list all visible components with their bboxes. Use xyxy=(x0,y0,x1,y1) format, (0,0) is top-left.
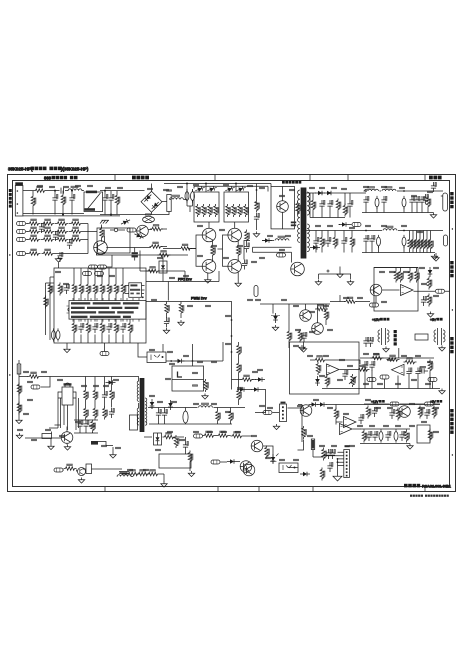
capacitor xyxy=(363,196,369,206)
capacitor C808 xyxy=(132,248,138,261)
resistor xyxy=(237,362,242,375)
ground xyxy=(439,389,445,395)
resistor xyxy=(28,227,41,233)
value label xyxy=(46,429,51,430)
capacitor xyxy=(53,231,59,241)
resistor xyxy=(325,375,330,388)
fuse F803 xyxy=(28,372,41,378)
wire xyxy=(23,214,120,216)
resistor xyxy=(265,446,270,459)
CON4 pin 4 xyxy=(346,461,348,463)
wire ground bus xyxy=(362,206,434,213)
pin label xyxy=(83,272,92,276)
value label xyxy=(150,395,155,396)
ground chassis xyxy=(100,220,109,223)
value label xyxy=(158,257,163,258)
ground xyxy=(273,424,279,430)
value label xyxy=(380,271,385,272)
capacitor xyxy=(372,431,378,441)
diode xyxy=(227,459,237,464)
resistor xyxy=(350,231,355,253)
value label xyxy=(152,299,157,300)
value label xyxy=(32,439,37,440)
value label xyxy=(198,225,203,226)
wire xyxy=(203,435,252,438)
value label xyxy=(42,371,47,372)
bridge rectifier BD801 xyxy=(141,191,162,212)
diode xyxy=(236,185,247,193)
value label xyxy=(364,186,369,187)
capacitor xyxy=(342,370,348,380)
transistor Q832 xyxy=(228,228,242,242)
resistor xyxy=(322,448,327,461)
wire xyxy=(209,222,235,228)
wire xyxy=(271,184,283,229)
wire xyxy=(135,377,139,409)
resistor xyxy=(296,202,301,215)
resistor xyxy=(245,230,250,243)
ground xyxy=(430,213,436,219)
value label xyxy=(212,245,217,246)
pin label xyxy=(95,272,104,276)
ground xyxy=(383,347,389,353)
diode D853 xyxy=(339,222,349,227)
wire xyxy=(100,190,145,192)
capacitor xyxy=(414,196,420,206)
pin label CON3 xyxy=(255,411,279,415)
transistor Q807 xyxy=(243,464,255,476)
value label xyxy=(248,299,253,300)
value label xyxy=(366,225,371,226)
bottom border tick xyxy=(105,487,425,492)
electrolytic capacitor C810 xyxy=(175,408,195,425)
junction dot xyxy=(170,360,193,362)
resistor xyxy=(404,358,417,364)
wire xyxy=(360,429,410,444)
value label xyxy=(128,469,133,470)
value label xyxy=(224,184,229,185)
resistor xyxy=(42,219,55,225)
transistor Q834 xyxy=(228,260,242,274)
resistor xyxy=(137,470,150,476)
ground arrow xyxy=(202,394,208,400)
wire xyxy=(140,184,152,215)
resistor xyxy=(28,235,41,241)
resistor xyxy=(333,236,338,249)
value label xyxy=(364,383,369,384)
capacitor xyxy=(156,409,162,419)
right margin vertical label main out xyxy=(450,192,453,208)
connector CON2B xyxy=(444,235,448,246)
resistor xyxy=(229,408,234,425)
connector pin LIN2 xyxy=(17,230,26,234)
wire xyxy=(148,408,232,425)
wire xyxy=(50,277,54,340)
value label xyxy=(50,186,55,187)
ground xyxy=(253,232,259,238)
wire xyxy=(187,206,193,212)
resistor xyxy=(334,408,339,421)
wire xyxy=(88,224,97,254)
value label xyxy=(194,184,199,185)
main transformer T830 core xyxy=(301,188,306,259)
resistor xyxy=(320,468,325,481)
TL431 U851 xyxy=(271,313,280,323)
value label xyxy=(64,186,69,187)
connector pin LIN1 xyxy=(17,222,26,226)
value label xyxy=(324,305,329,306)
resistor xyxy=(426,196,431,209)
capacitor CX1 xyxy=(52,191,58,215)
audio box xyxy=(290,342,360,394)
wire xyxy=(26,253,29,255)
connector CON8 mains input xyxy=(15,182,23,216)
resistor xyxy=(232,204,237,217)
note text block xyxy=(67,298,147,322)
transistor Q805 xyxy=(251,440,263,452)
value label xyxy=(422,283,427,284)
value label xyxy=(388,359,393,360)
value label xyxy=(418,231,423,232)
base resistor 2 xyxy=(106,242,167,248)
value label xyxy=(238,387,243,388)
capacitor xyxy=(419,196,425,206)
box xyxy=(417,425,430,443)
value label xyxy=(28,399,33,400)
zener box D805 xyxy=(154,433,162,445)
value label xyxy=(324,355,329,356)
wire xyxy=(288,405,303,443)
transistor Q836 xyxy=(291,262,305,276)
wire HV standby bus xyxy=(19,365,28,377)
connector pin NIN xyxy=(17,252,26,256)
capacitor xyxy=(369,235,375,245)
capacitor xyxy=(57,252,63,262)
transformer T801 core xyxy=(140,378,144,432)
resistor R839 xyxy=(236,240,241,261)
wire xyxy=(26,239,28,241)
zener box D832 xyxy=(159,256,167,282)
value label xyxy=(400,187,405,188)
ground xyxy=(427,312,433,318)
value label xyxy=(382,186,387,187)
wire xyxy=(25,427,67,445)
connector CON2A xyxy=(441,193,448,211)
resistor xyxy=(428,360,433,373)
inductor L853 xyxy=(383,226,397,230)
resistor R876 xyxy=(344,297,357,303)
capacitor xyxy=(242,260,248,270)
capacitor xyxy=(120,319,126,343)
ground xyxy=(178,320,184,326)
resistor R838 xyxy=(211,240,216,261)
value label xyxy=(434,267,439,268)
value label xyxy=(212,361,217,362)
value label xyxy=(106,187,111,188)
resistor xyxy=(127,470,140,476)
resistor xyxy=(411,231,416,253)
value label xyxy=(58,379,63,380)
comparator box xyxy=(374,268,418,312)
capacitor xyxy=(369,361,375,371)
wire xyxy=(41,377,136,383)
second gate rail xyxy=(194,186,268,191)
svg-text:35K025-HP(: 35K025-HP( xyxy=(8,166,33,171)
capacitor xyxy=(64,284,70,294)
electrolytic capacitor xyxy=(52,328,56,341)
diode D803 xyxy=(150,399,155,409)
capacitor xyxy=(92,319,98,343)
aux winding xyxy=(275,236,289,240)
ground xyxy=(347,280,353,286)
common mode choke L801 xyxy=(84,191,103,212)
wire xyxy=(41,231,88,233)
resistor xyxy=(366,406,371,419)
resistor xyxy=(179,302,184,319)
transformer secondary winding xyxy=(307,192,309,215)
resistor xyxy=(100,225,105,242)
capacitor xyxy=(385,431,391,441)
resistor xyxy=(425,231,430,253)
wire xyxy=(41,223,88,225)
electrolytic capacitor xyxy=(402,196,406,209)
ground top xyxy=(433,253,439,261)
value label xyxy=(390,271,395,272)
pin label xyxy=(339,223,362,227)
CON4 pin 8 xyxy=(346,475,348,477)
ground xyxy=(407,444,413,450)
value label xyxy=(28,381,33,382)
value label xyxy=(316,225,321,226)
svg-text:+5V: +5V xyxy=(430,318,437,322)
resistor xyxy=(79,268,84,301)
capacitor xyxy=(418,366,428,373)
diode xyxy=(255,377,265,382)
box xyxy=(86,464,92,474)
diode xyxy=(309,402,319,407)
wire xyxy=(322,388,360,390)
pin label xyxy=(100,343,109,356)
resistor xyxy=(427,277,432,290)
wire xyxy=(364,403,440,405)
value label xyxy=(102,445,107,446)
resistor xyxy=(64,464,77,470)
pin label xyxy=(127,228,136,232)
wire xyxy=(336,405,343,425)
wire xyxy=(310,193,345,218)
resistor xyxy=(408,231,413,253)
resistor xyxy=(84,407,89,420)
ground xyxy=(110,447,116,458)
capacitor xyxy=(409,196,415,206)
value label xyxy=(328,329,333,330)
capacitor xyxy=(67,239,73,249)
capacitor xyxy=(363,337,369,347)
resistor xyxy=(100,319,105,343)
resistor xyxy=(343,204,348,217)
resistor xyxy=(287,304,292,348)
value label xyxy=(434,407,439,408)
ground xyxy=(16,433,22,439)
wire top bus K xyxy=(360,357,434,359)
resistor xyxy=(84,389,89,402)
CON4 pin 3 xyxy=(346,458,348,460)
wire xyxy=(253,247,292,262)
capacitor xyxy=(368,337,374,347)
relay contact xyxy=(110,228,125,231)
value label xyxy=(434,295,439,296)
wire xyxy=(330,301,345,303)
junction dot xyxy=(256,189,258,204)
resistor xyxy=(58,283,63,296)
electrolytic capacitor xyxy=(402,235,406,248)
pin label xyxy=(425,402,434,406)
resistor xyxy=(93,268,98,301)
diode xyxy=(175,359,185,364)
capacitor xyxy=(399,431,405,441)
value label xyxy=(24,413,29,414)
value label xyxy=(156,449,161,450)
value label xyxy=(236,431,241,432)
relay box K801 xyxy=(97,228,130,253)
value label xyxy=(348,365,353,366)
resistor xyxy=(147,267,186,282)
resistor xyxy=(48,283,53,296)
ground xyxy=(64,445,70,451)
pin label xyxy=(170,363,175,364)
capacitor xyxy=(39,223,45,233)
connector pin LIN3 xyxy=(17,238,26,242)
resistor xyxy=(415,270,420,283)
value label xyxy=(412,379,417,380)
capacitor xyxy=(330,449,336,459)
wire xyxy=(260,304,330,314)
value label xyxy=(158,401,163,402)
diode xyxy=(237,387,247,392)
ground xyxy=(48,444,54,450)
bulk capacitor C807 xyxy=(191,189,195,206)
value label xyxy=(340,359,345,360)
value label xyxy=(422,421,427,422)
op-amp U876 xyxy=(344,417,357,428)
pin label xyxy=(380,375,389,379)
wire xyxy=(144,437,190,471)
ground xyxy=(188,471,194,477)
value label xyxy=(188,305,193,306)
resistor xyxy=(237,344,242,357)
capacitor dark xyxy=(291,222,296,227)
label CQY xyxy=(282,181,301,184)
value label xyxy=(384,425,389,426)
pin label xyxy=(370,296,379,307)
resistor xyxy=(394,270,399,283)
value label xyxy=(410,425,415,426)
ground xyxy=(16,418,22,424)
value label xyxy=(252,261,257,262)
diode xyxy=(300,472,310,477)
resistor xyxy=(298,330,303,343)
value label xyxy=(296,329,301,330)
diode xyxy=(195,185,206,193)
value label xyxy=(344,413,349,414)
CON4 pin 2 xyxy=(346,455,348,457)
wire xyxy=(86,377,112,408)
pin label xyxy=(54,468,63,472)
zone label main supply xyxy=(429,176,442,180)
value label xyxy=(366,399,371,400)
diode xyxy=(428,267,433,277)
resistor xyxy=(320,231,325,253)
snubber box T801 xyxy=(130,415,138,430)
ground xyxy=(64,343,70,353)
value label xyxy=(382,225,387,226)
value label xyxy=(18,429,23,430)
value label xyxy=(404,271,409,272)
capacitor xyxy=(78,319,84,343)
value label xyxy=(114,379,119,380)
box xyxy=(415,334,428,340)
value label xyxy=(104,385,109,386)
wire PFC Drv xyxy=(146,271,219,301)
wire xyxy=(18,377,20,419)
value label xyxy=(320,375,325,376)
resistor xyxy=(231,432,244,438)
relay coil K801 xyxy=(143,214,155,223)
resistor xyxy=(147,470,160,476)
diode xyxy=(133,232,144,240)
wire xyxy=(244,241,274,265)
wire xyxy=(218,235,228,266)
capacitor xyxy=(389,409,395,419)
resistor xyxy=(86,319,91,343)
bottom caption below border xyxy=(410,495,449,497)
diode xyxy=(251,387,261,392)
value label xyxy=(402,225,407,226)
output pin label xyxy=(414,289,450,293)
diode xyxy=(168,400,173,410)
resistor xyxy=(432,406,437,419)
wire xyxy=(206,184,236,193)
value label xyxy=(208,431,213,432)
capacitor xyxy=(109,408,115,418)
wire xyxy=(298,404,302,406)
ground xyxy=(205,273,211,284)
wire loops U801 xyxy=(49,392,79,430)
svg-text:RSAG2.908.497: RSAG2.908.497 xyxy=(422,485,448,489)
ground xyxy=(333,474,342,481)
pin label xyxy=(367,378,376,382)
value label xyxy=(168,431,173,432)
value label xyxy=(172,401,177,402)
resistor xyxy=(202,204,207,217)
zone label 868 standby supply xyxy=(44,176,78,181)
top border tick xyxy=(115,175,425,181)
connector CON3 xyxy=(280,402,287,422)
wire xyxy=(340,295,370,302)
resistor xyxy=(110,389,115,402)
value label xyxy=(350,227,355,228)
capacitor xyxy=(301,332,307,342)
resistor xyxy=(324,304,329,325)
resistor xyxy=(174,435,179,448)
value label xyxy=(150,349,155,350)
svg-text:868: 868 xyxy=(44,176,52,181)
resistor xyxy=(42,227,55,233)
wire xyxy=(138,343,147,357)
resistor xyxy=(128,319,133,343)
ground xyxy=(161,482,167,488)
wire xyxy=(319,274,352,279)
